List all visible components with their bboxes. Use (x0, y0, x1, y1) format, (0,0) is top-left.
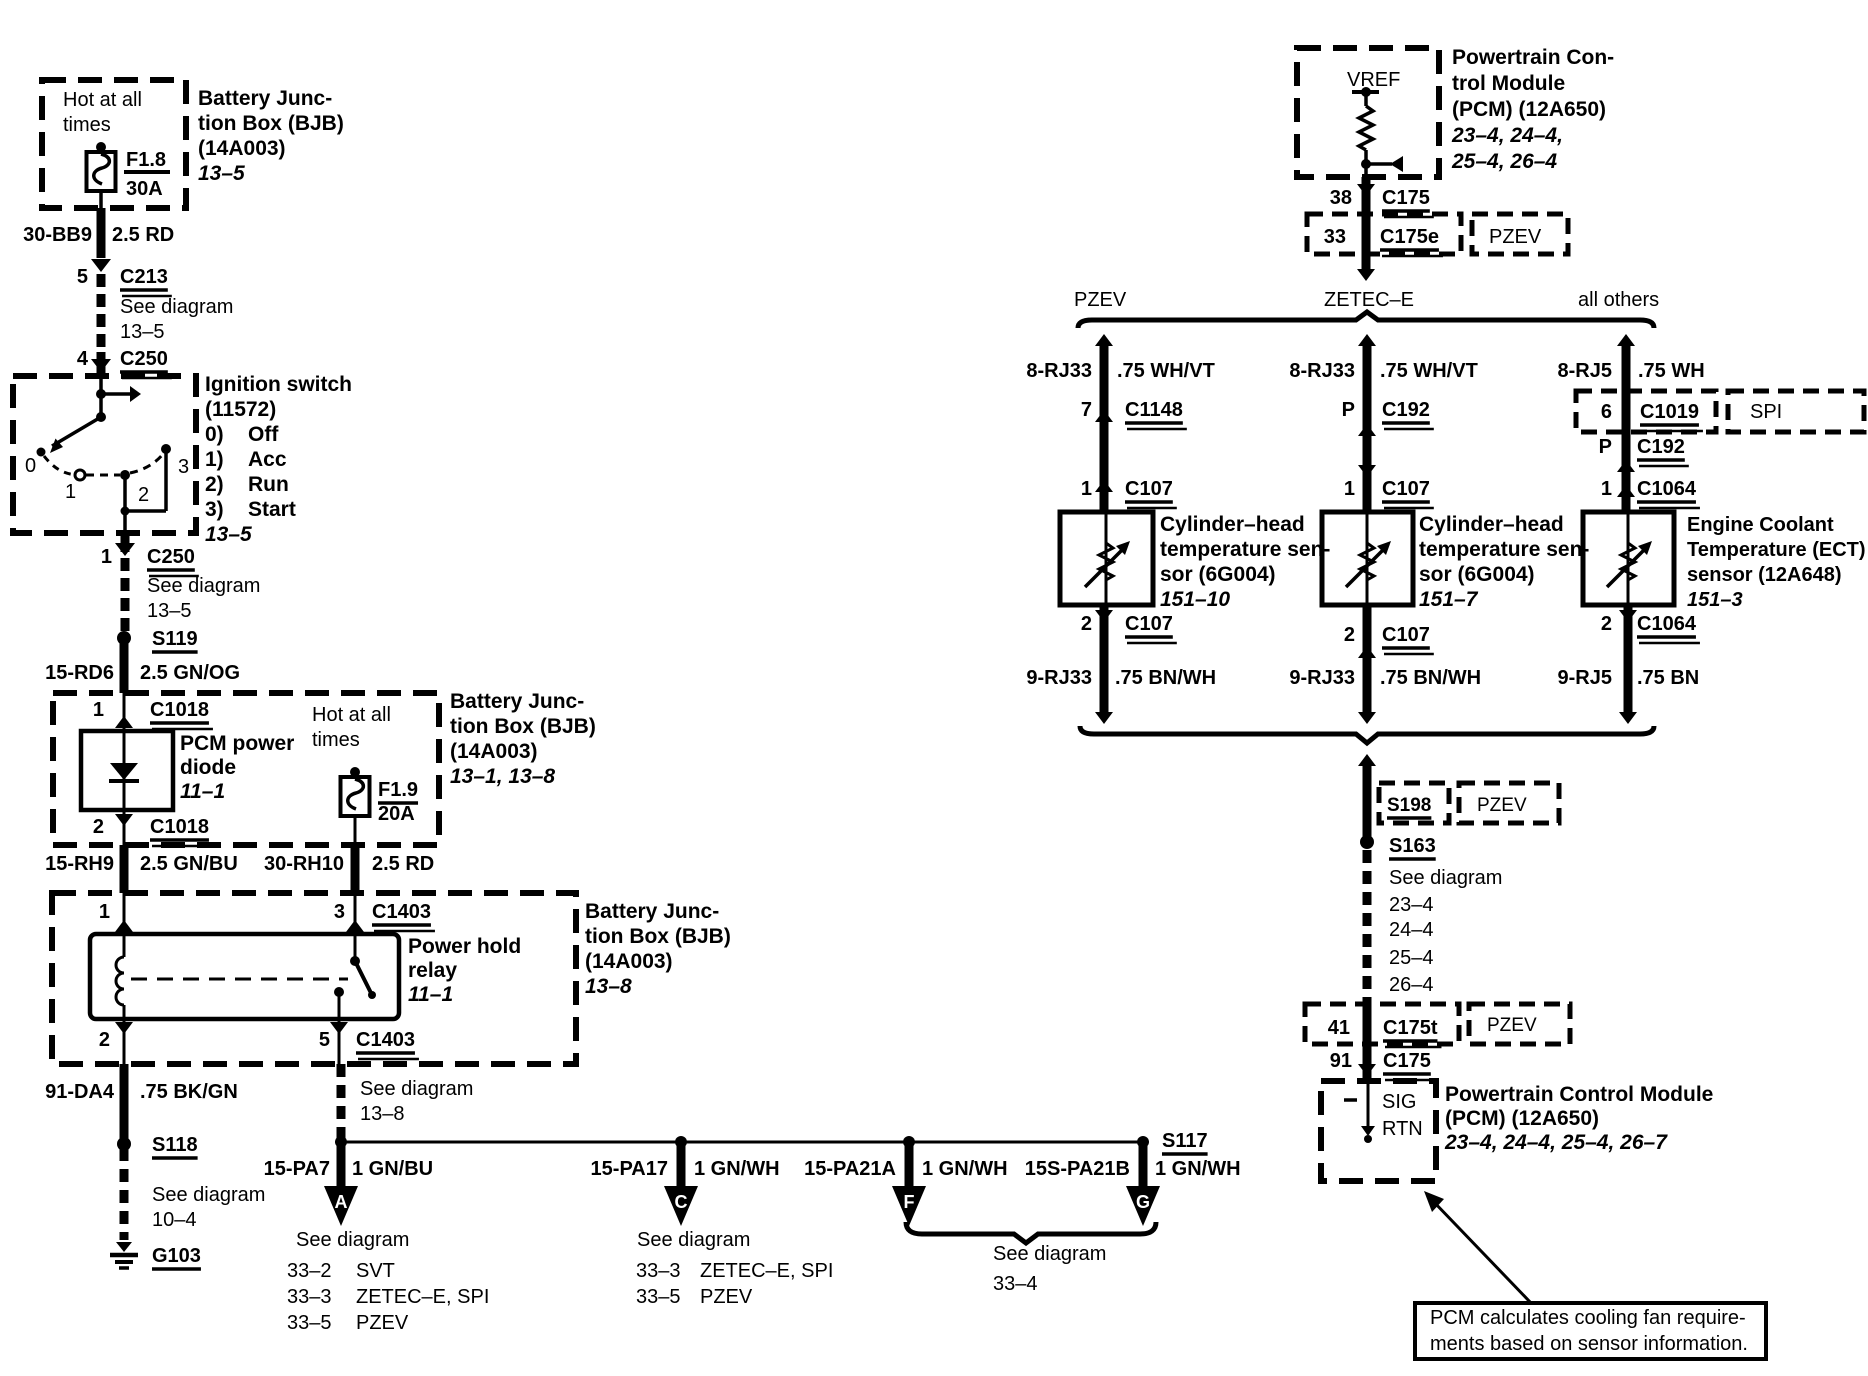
cylinder-head temperature sensor (6G004) 151-10 box PZEV (1060, 512, 1153, 605)
svg-text:G103: G103 (152, 1245, 201, 1267)
svg-text:1: 1 (65, 481, 76, 503)
svg-text:33–5: 33–5 (636, 1286, 681, 1308)
svg-text:2: 2 (1081, 613, 1092, 635)
thermistor symbol (ECT sensor) (1627, 512, 1630, 605)
splice S198 dashed box (PZEV) (1379, 783, 1449, 823)
svg-text:24–4: 24–4 (1389, 919, 1434, 941)
connector C1403 pin 5 arrow (338, 1019, 341, 1064)
svg-text:30-RH10: 30-RH10 (264, 853, 344, 875)
svg-text:diode: diode (180, 756, 236, 779)
svg-text:See diagram: See diagram (993, 1243, 1106, 1265)
svg-text:C213: C213 (120, 266, 168, 288)
svg-text:(14A003): (14A003) (585, 950, 673, 973)
ignition switch internal contacts (96, 389, 106, 399)
svg-text:See diagram: See diagram (296, 1229, 409, 1251)
svg-text:Power hold: Power hold (408, 935, 521, 958)
svg-text:ZETEC–E: ZETEC–E (1324, 289, 1414, 311)
top distribution brace (1078, 312, 1654, 328)
svg-text:5: 5 (77, 266, 88, 288)
engine coolant temperature ECT sensor (12A648) 151-3 box (1583, 512, 1674, 605)
svg-text:F1.9: F1.9 (378, 779, 418, 801)
powertrain control module PCM dashed enclosure (top) (1297, 48, 1439, 177)
svg-text:(14A003): (14A003) (198, 137, 286, 160)
svg-text:See diagram: See diagram (120, 296, 233, 318)
wire 30-RH10 2.5 RD (351, 845, 360, 893)
powertrain control module PCM dashed enclosure (bottom) SIG RTN (1321, 1081, 1436, 1181)
connector C1148 pin 7 arrow (1095, 410, 1113, 422)
svg-text:13–8: 13–8 (585, 975, 632, 998)
svg-text:C192: C192 (1382, 399, 1430, 421)
svg-text:Engine Coolant: Engine Coolant (1687, 514, 1834, 536)
svg-text:13–5: 13–5 (198, 162, 245, 185)
connector C192 pin P arrow (all others) (1617, 460, 1635, 472)
battery junction box BJB2 (14A003) dashed enclosure with diode and fuse F1.9 (53, 693, 439, 845)
wire pin 5 to splice junction (see diagram 13-8) (337, 1064, 346, 1132)
svg-text:1 GN/WH: 1 GN/WH (1155, 1158, 1241, 1180)
svg-text:C1064: C1064 (1637, 478, 1697, 500)
svg-text:SIG: SIG (1382, 1091, 1416, 1113)
dashed PZEV option box (C175t) (1469, 1004, 1570, 1044)
svg-text:2.5 GN/OG: 2.5 GN/OG (140, 662, 240, 684)
svg-text:1: 1 (101, 546, 112, 568)
svg-text:tion Box (BJB): tion Box (BJB) (450, 715, 596, 738)
svg-text:Ignition switch: Ignition switch (205, 373, 352, 396)
svg-text:C175: C175 (1382, 187, 1430, 209)
svg-text:15-PA21A: 15-PA21A (804, 1158, 896, 1180)
svg-text:.75 WH/VT: .75 WH/VT (1380, 360, 1478, 382)
connector C192 pin P arrow (ZETEC-E) (1358, 424, 1376, 436)
svg-text:C107: C107 (1125, 613, 1173, 635)
ignition switch rotor arc dashed (44, 456, 80, 475)
wire 91-DA4 .75 BK/GN (120, 1064, 129, 1140)
svg-text:PZEV: PZEV (700, 1286, 753, 1308)
ignition switch terminal 0 (37, 448, 46, 457)
svg-text:9-RJ33: 9-RJ33 (1289, 667, 1355, 689)
svg-text:C175t: C175t (1383, 1017, 1438, 1039)
svg-text:15-PA17: 15-PA17 (591, 1158, 668, 1180)
svg-text:1: 1 (1601, 478, 1612, 500)
svg-text:23–4, 24–4,: 23–4, 24–4, (1451, 124, 1563, 147)
connector C107 pin 2 arrow (PZEV) (1100, 605, 1109, 716)
svg-text:11–1: 11–1 (180, 780, 225, 803)
svg-text:15-RH9: 15-RH9 (45, 853, 114, 875)
svg-text:C: C (675, 1192, 688, 1212)
connector C107 pin 2 arrow (ZETEC-E) (1363, 605, 1372, 716)
svg-text:2: 2 (99, 1029, 110, 1051)
dashed PZEV option box (S198) (1459, 783, 1559, 823)
fuse F1.9 20A (350, 767, 360, 777)
svg-text:times: times (63, 114, 111, 136)
svg-text:temperature sen-: temperature sen- (1419, 538, 1589, 561)
svg-text:.75 BN/WH: .75 BN/WH (1380, 667, 1481, 689)
connector C1064 pin 1 arrow (1617, 485, 1635, 497)
svg-text:0): 0) (205, 423, 224, 446)
svg-text:2): 2) (205, 473, 224, 496)
ignition switch terminal 2 (120, 470, 130, 480)
svg-text:sensor (12A648): sensor (12A648) (1687, 564, 1842, 586)
svg-text:Temperature (ECT): Temperature (ECT) (1687, 539, 1866, 561)
svg-text:9-RJ33: 9-RJ33 (1026, 667, 1092, 689)
svg-text:(11572): (11572) (205, 398, 276, 421)
svg-text:6: 6 (1601, 401, 1612, 423)
svg-text:S117: S117 (1162, 1130, 1208, 1152)
connector C175 pin 38 arrow (1362, 177, 1371, 214)
svg-text:33–5: 33–5 (287, 1312, 332, 1334)
svg-text:1: 1 (1081, 478, 1092, 500)
svg-text:all others: all others (1578, 289, 1659, 311)
svg-text:C107: C107 (1382, 624, 1430, 646)
connector C1403 pin 2 arrow (123, 1019, 126, 1064)
svg-text:C1403: C1403 (372, 901, 431, 923)
connector C175t pin 41 dashed box (PZEV) (1305, 1004, 1459, 1044)
svg-text:C107: C107 (1125, 478, 1173, 500)
connector C250 pin 1 arrow (121, 533, 130, 552)
connector C107 pin 1 arrow (PZEV) (1095, 480, 1113, 492)
svg-text:C175e: C175e (1380, 226, 1439, 248)
svg-text:(PCM) (12A650): (PCM) (12A650) (1452, 98, 1606, 121)
node with output arrow inside PCM (1361, 159, 1371, 169)
svg-text:41: 41 (1328, 1017, 1350, 1039)
svg-text:Hot at all: Hot at all (63, 89, 142, 111)
svg-text:C107: C107 (1382, 478, 1430, 500)
cylinder-head temperature sensor (6G004) 151-7 box ZETEC-E (1322, 512, 1413, 605)
svg-text:13–8: 13–8 (360, 1103, 405, 1125)
connector C175e pin 33 dashed box (PZEV) (1307, 214, 1461, 254)
svg-text:Battery Junc-: Battery Junc- (198, 87, 332, 110)
svg-text:C1018: C1018 (150, 699, 209, 721)
svg-text:times: times (312, 729, 360, 751)
wire S163 to C175t (see diagram 23-4 24-4 25-4 26-4) (1363, 850, 1372, 1004)
dashed SPI option box (1728, 391, 1864, 432)
battery junction box BJB3 (14A003) dashed enclosure with power hold relay (52, 893, 576, 1064)
svg-text:30-BB9: 30-BB9 (23, 224, 92, 246)
svg-text:13–5: 13–5 (120, 321, 165, 343)
wire 15-RH9 2.5 GN/BU (120, 845, 129, 893)
dashed PZEV option box (1472, 214, 1568, 254)
wire 15-RD6 2.5 GN/OG from S119 to C1018 (120, 638, 129, 693)
svg-text:2.5 RD: 2.5 RD (372, 853, 434, 875)
svg-text:C1403: C1403 (356, 1029, 415, 1051)
svg-text:Cylinder–head: Cylinder–head (1160, 513, 1305, 536)
svg-text:Acc: Acc (248, 448, 287, 471)
svg-text:G: G (1136, 1192, 1150, 1212)
wire 30-BB9 2.5 RD from fuse F1.8 to C213 (97, 208, 106, 258)
thermistor symbol (ZETEC-E sensor) (1366, 512, 1369, 605)
svg-text:PZEV: PZEV (356, 1312, 409, 1334)
svg-text:3): 3) (205, 498, 224, 521)
power hold relay box (90, 934, 399, 1019)
svg-text:See diagram: See diagram (1389, 867, 1502, 889)
svg-text:.75 WH: .75 WH (1638, 360, 1705, 382)
svg-text:1 GN/WH: 1 GN/WH (922, 1158, 1008, 1180)
splice S118 (117, 1137, 131, 1151)
PCM power diode box (81, 731, 173, 810)
connector C1018 pin 2 arrow (115, 814, 133, 826)
svg-text:(PCM) (12A650): (PCM) (12A650) (1445, 1107, 1599, 1130)
svg-text:PZEV: PZEV (1489, 226, 1542, 248)
svg-text:1: 1 (99, 901, 110, 923)
svg-text:1: 1 (1344, 478, 1355, 500)
svg-text:8-RJ33: 8-RJ33 (1026, 360, 1092, 382)
connector C1064 pin 2 arrow (1624, 605, 1633, 716)
svg-text:ments based on sensor informat: ments based on sensor information. (1430, 1333, 1748, 1355)
svg-text:C1148: C1148 (1125, 399, 1183, 421)
svg-text:C192: C192 (1637, 436, 1685, 458)
svg-text:See diagram: See diagram (637, 1229, 750, 1251)
svg-text:2: 2 (1344, 624, 1355, 646)
svg-text:SPI: SPI (1750, 401, 1782, 423)
svg-text:S119: S119 (152, 628, 198, 650)
svg-text:25–4, 26–4: 25–4, 26–4 (1451, 150, 1557, 173)
wire 8-RJ33 .75 WH/VT (PZEV branch) (1100, 340, 1109, 512)
relay coil (123, 934, 126, 957)
fuse F1.8 30A (96, 142, 106, 152)
svg-text:Cylinder–head: Cylinder–head (1419, 513, 1564, 536)
bottom collection brace (1080, 726, 1654, 743)
svg-text:8-RJ5: 8-RJ5 (1558, 360, 1612, 382)
svg-text:See diagram: See diagram (360, 1078, 473, 1100)
svg-text:9-RJ5: 9-RJ5 (1558, 667, 1612, 689)
svg-text:13–5: 13–5 (147, 600, 192, 622)
svg-text:C250: C250 (147, 546, 195, 568)
wire horizontal bus to S117 (341, 1141, 1143, 1144)
svg-text:P: P (1599, 436, 1612, 458)
wire 8-RJ33 .75 WH/VT (ZETEC-E branch) (1363, 340, 1372, 512)
connector C213 pin 5 arrow (91, 259, 111, 272)
svg-text:PZEV: PZEV (1487, 1015, 1537, 1036)
svg-text:tion Box (BJB): tion Box (BJB) (585, 925, 731, 948)
svg-text:38: 38 (1330, 187, 1352, 209)
ignition switch (11572) dashed enclosure (13, 376, 196, 533)
connector C175 pin 91 arrow (1363, 1044, 1372, 1082)
svg-text:0: 0 (25, 455, 36, 477)
svg-text:ZETEC–E, SPI: ZETEC–E, SPI (700, 1260, 833, 1282)
svg-text:11–1: 11–1 (408, 983, 453, 1006)
svg-text:SVT: SVT (356, 1260, 395, 1282)
svg-text:C175: C175 (1383, 1050, 1431, 1072)
relay dashed link (131, 978, 348, 981)
svg-text:.75 BN/WH: .75 BN/WH (1115, 667, 1216, 689)
brace grouping F and G (see diagram 33-4) (906, 1222, 1156, 1243)
svg-text:Battery Junc-: Battery Junc- (585, 900, 719, 923)
svg-text:15-RD6: 15-RD6 (45, 662, 114, 684)
svg-text:13–1, 13–8: 13–1, 13–8 (450, 765, 555, 788)
svg-text:15S-PA21B: 15S-PA21B (1025, 1158, 1130, 1180)
connector C1019 pin 6 dashed box (SPI) (1576, 391, 1716, 432)
svg-text:151–3: 151–3 (1687, 589, 1743, 611)
svg-text:2: 2 (138, 484, 149, 506)
svg-text:ZETEC–E, SPI: ZETEC–E, SPI (356, 1286, 489, 1308)
node junction C (675, 1136, 687, 1148)
callout arrow from note to PCM (1432, 1200, 1531, 1303)
svg-text:30A: 30A (126, 178, 163, 200)
relay switch blade pin 3 to pin 5 (354, 934, 357, 958)
svg-text:4: 4 (77, 348, 89, 370)
node junction F (903, 1136, 915, 1148)
svg-text:RTN: RTN (1382, 1118, 1423, 1140)
svg-text:20A: 20A (378, 803, 415, 825)
svg-text:Powertrain Control Module: Powertrain Control Module (1445, 1083, 1713, 1106)
svg-text:C250: C250 (120, 348, 168, 370)
ground G103 (116, 1242, 132, 1252)
svg-text:VREF: VREF (1347, 69, 1400, 91)
svg-text:PCM calculates cooling fan req: PCM calculates cooling fan require- (1430, 1307, 1746, 1329)
svg-text:33–3: 33–3 (287, 1286, 332, 1308)
svg-text:C1019: C1019 (1640, 401, 1699, 423)
svg-text:A: A (335, 1192, 348, 1212)
svg-text:relay: relay (408, 959, 457, 982)
battery junction box BJB1 (14A003) dashed enclosure (42, 80, 186, 208)
svg-text:Off: Off (248, 423, 279, 446)
svg-text:91: 91 (1330, 1050, 1352, 1072)
relay contact pin 5 (334, 987, 344, 997)
wire VREF down to ZETEC-E branch (1362, 254, 1371, 271)
svg-text:.75 WH/VT: .75 WH/VT (1117, 360, 1215, 382)
svg-text:temperature sen-: temperature sen- (1160, 538, 1330, 561)
svg-text:91-DA4: 91-DA4 (45, 1081, 115, 1103)
svg-text:23–4: 23–4 (1389, 894, 1434, 916)
svg-text:C1064: C1064 (1637, 613, 1697, 635)
wire 8-RJ5 .75 WH (all others branch) (1622, 340, 1631, 512)
wire C213 to C250 (see diagram 13-5) (97, 274, 106, 352)
svg-text:See diagram: See diagram (147, 575, 260, 597)
svg-text:23–4, 24–4, 25–4, 26–7: 23–4, 24–4, 25–4, 26–7 (1444, 1131, 1668, 1154)
svg-text:tion Box (BJB): tion Box (BJB) (198, 112, 344, 135)
ignition switch terminal 3 (161, 444, 171, 454)
wire return to PCM SIG RTN (1358, 754, 1376, 766)
svg-text:10–4: 10–4 (152, 1209, 197, 1231)
splice S117 node G (1137, 1136, 1149, 1148)
svg-text:3: 3 (334, 901, 345, 923)
svg-text:PZEV: PZEV (1477, 795, 1527, 816)
svg-text:2.5 RD: 2.5 RD (112, 224, 174, 246)
svg-text:1): 1) (205, 448, 224, 471)
wire terminal 2 down (123, 475, 127, 533)
svg-text:25–4: 25–4 (1389, 947, 1434, 969)
svg-text:26–4: 26–4 (1389, 974, 1434, 996)
svg-text:13–5: 13–5 (205, 523, 252, 546)
splice S163 (1360, 835, 1374, 849)
resistor in PCM VREF (1364, 92, 1368, 106)
svg-text:See diagram: See diagram (152, 1184, 265, 1206)
svg-text:S118: S118 (152, 1134, 198, 1156)
svg-text:(14A003): (14A003) (450, 740, 538, 763)
svg-text:33–3: 33–3 (636, 1260, 681, 1282)
svg-text:5: 5 (319, 1029, 330, 1051)
svg-text:33: 33 (1324, 226, 1346, 248)
node junction A (335, 1136, 347, 1148)
svg-text:Start: Start (248, 498, 296, 521)
svg-text:P: P (1342, 399, 1355, 421)
splice S119 (117, 631, 131, 645)
svg-text:33–4: 33–4 (993, 1273, 1038, 1295)
svg-text:F1.8: F1.8 (126, 149, 166, 171)
svg-text:2: 2 (93, 816, 104, 838)
svg-text:8-RJ33: 8-RJ33 (1289, 360, 1355, 382)
svg-text:Battery Junc-: Battery Junc- (450, 690, 584, 713)
svg-text:PCM power: PCM power (180, 732, 294, 755)
wire S118 to G103 (see diagram 10-4) (120, 1148, 129, 1240)
svg-text:PZEV: PZEV (1074, 289, 1127, 311)
svg-text:151–7: 151–7 (1419, 588, 1479, 611)
note box PCM calculates cooling fan requirements (1415, 1303, 1766, 1359)
svg-text:Hot at all: Hot at all (312, 704, 391, 726)
svg-text:15-PA7: 15-PA7 (264, 1158, 330, 1180)
diode symbol (123, 731, 126, 810)
svg-text:F: F (904, 1192, 915, 1212)
svg-text:sor (6G004): sor (6G004) (1419, 563, 1535, 586)
svg-text:151–10: 151–10 (1160, 588, 1230, 611)
svg-text:Powertrain Con-: Powertrain Con- (1452, 46, 1614, 69)
svg-text:1: 1 (93, 699, 104, 721)
svg-text:7: 7 (1081, 399, 1092, 421)
svg-text:33–2: 33–2 (287, 1260, 332, 1282)
svg-text:Run: Run (248, 473, 289, 496)
svg-text:2.5 GN/BU: 2.5 GN/BU (140, 853, 238, 875)
svg-text:3: 3 (178, 456, 189, 478)
svg-text:1 GN/BU: 1 GN/BU (352, 1158, 433, 1180)
svg-text:S163: S163 (1389, 835, 1436, 857)
svg-text:sor (6G004): sor (6G004) (1160, 563, 1276, 586)
svg-text:2: 2 (1601, 613, 1612, 635)
svg-text:.75 BN: .75 BN (1637, 667, 1699, 689)
svg-text:trol Module: trol Module (1452, 72, 1565, 95)
svg-text:C1018: C1018 (150, 816, 209, 838)
svg-text:1 GN/WH: 1 GN/WH (694, 1158, 780, 1180)
thermistor symbol (PZEV sensor) (1105, 512, 1108, 605)
wire C250 to S119 (see diagram 13-5) (121, 558, 130, 631)
wire terminal 3 to terminal 2 link (164, 449, 168, 511)
connector C107 pin 1 arrow (ZETEC-E) (1358, 465, 1376, 477)
svg-text:.75 BK/GN: .75 BK/GN (140, 1081, 238, 1103)
svg-text:S198: S198 (1387, 795, 1431, 816)
